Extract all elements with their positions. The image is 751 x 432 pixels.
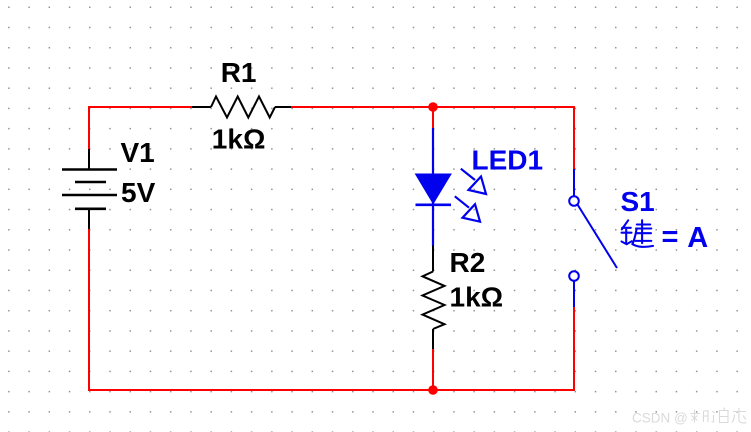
svg-text:=: = — [662, 221, 679, 253]
node junction bottom — [428, 385, 438, 395]
wire — [89, 107, 192, 150]
watermark pseudo CJK 桃卿白衣 — [691, 408, 747, 424]
LED1 — [416, 128, 487, 246]
resistor R1 — [192, 97, 291, 118]
wire — [432, 349, 434, 390]
LED arrow 1 — [461, 169, 475, 180]
battery V1 — [62, 149, 117, 229]
wire — [89, 228, 574, 390]
wire — [432, 107, 434, 129]
svg-text:1kΩ: 1kΩ — [450, 282, 504, 313]
svg-text:R1: R1 — [221, 57, 257, 88]
resistor R2 — [423, 246, 445, 350]
svg-text:A: A — [687, 222, 708, 254]
svg-text:V1: V1 — [121, 137, 155, 168]
svg-text:CSDN @: CSDN @ — [632, 411, 688, 426]
svg-text:LED1: LED1 — [472, 145, 544, 176]
svg-text:5V: 5V — [121, 177, 156, 208]
node junction top — [428, 102, 438, 112]
svg-text:1kΩ: 1kΩ — [212, 124, 266, 155]
switch S1 — [569, 169, 617, 307]
LED arrow 2 — [455, 196, 469, 207]
svg-text:S1: S1 — [621, 186, 655, 217]
key glyph 键 (drawn) — [622, 220, 654, 247]
wire — [291, 107, 574, 169]
svg-text:R2: R2 — [450, 247, 486, 278]
